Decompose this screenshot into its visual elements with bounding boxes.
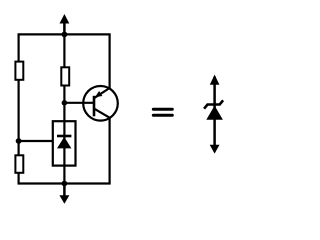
resistor R2 (center) [61, 67, 69, 85]
equivalent zener symbol: zener diode DZ [204, 100, 223, 119]
equivalent zener symbol: wire [213, 77, 216, 152]
equivalent zener symbol: bottom arrow [210, 145, 220, 154]
node left junction [16, 138, 22, 144]
resistor R1 (upper left) [15, 62, 23, 80]
zener reference box [53, 121, 76, 165]
wire left branch to box [19, 140, 54, 142]
wire outer loop (top rail, left wire, bottom rail, right wire segments) [19, 34, 110, 183]
terminal arrow top (upward) [60, 14, 70, 34]
wire base [64, 102, 94, 104]
node bottom junction [62, 181, 68, 187]
node base junction [62, 100, 68, 106]
node top junction [62, 32, 68, 38]
diode D1 (in box) [57, 136, 71, 148]
terminal arrow bottom (downward) [59, 184, 69, 204]
transistor Q1 (PNP) [83, 86, 118, 121]
resistor R3 (lower left) [15, 155, 23, 173]
equivalent zener symbol: top arrow [210, 75, 220, 85]
equals sign [153, 109, 172, 115]
wire center branch [63, 34, 65, 183]
